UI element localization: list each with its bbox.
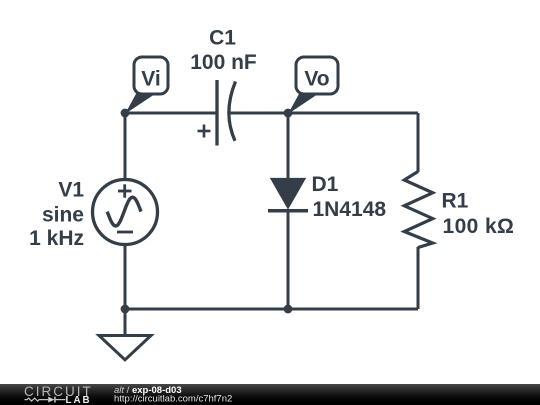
node dot Vi — [121, 109, 130, 118]
wire left lower (V1 bottom to ground node) — [124, 244, 127, 309]
svg-text:C1: C1 — [209, 27, 236, 50]
svg-text:R1: R1 — [442, 190, 469, 213]
svg-text:Vo: Vo — [304, 68, 329, 91]
label R1 value — [442, 190, 515, 239]
capacitor C1 — [198, 80, 236, 146]
node dot bottom-middle junction — [284, 305, 293, 314]
label V1 value — [29, 178, 84, 250]
svg-text:100 nF: 100 nF — [190, 51, 257, 74]
wire right lower (R1 to bottom net) — [417, 247, 420, 309]
wire middle lower (D1 cathode to bottom net) — [287, 211, 290, 309]
svg-text:V1: V1 — [58, 178, 84, 201]
label C1 value — [190, 27, 257, 75]
svg-text:http://circuitlab.com/c7hf7n2: http://circuitlab.com/c7hf7n2 — [114, 393, 232, 404]
diode D1 — [268, 178, 308, 211]
footer bar — [0, 384, 540, 405]
node tag Vi — [125, 57, 168, 114]
voltage source V1 — [93, 180, 158, 245]
node dot bottom-left junction — [121, 305, 130, 314]
resistor R1 — [404, 172, 432, 248]
svg-text:D1: D1 — [312, 173, 339, 196]
label D1 value — [312, 173, 387, 221]
footer logo mark (resistor + diode) — [25, 397, 66, 403]
svg-text:1N4148: 1N4148 — [313, 198, 387, 221]
wire top-left (node Vi to C1) — [125, 112, 217, 115]
ground — [99, 336, 151, 360]
svg-text:LAB: LAB — [66, 395, 92, 405]
svg-text:Vi: Vi — [141, 68, 160, 91]
wire right upper (top net to R1) — [417, 113, 420, 172]
svg-text:sine: sine — [42, 204, 84, 227]
svg-text:100 kΩ: 100 kΩ — [443, 215, 515, 238]
wire bottom net — [125, 308, 418, 311]
wire middle upper (Vo node to D1 anode) — [287, 113, 290, 179]
wire ground stub — [124, 309, 127, 334]
wire left upper (Vi node to V1 top) — [124, 113, 127, 180]
node dot Vo — [284, 109, 293, 118]
svg-text:1 kHz: 1 kHz — [29, 227, 84, 250]
wire top-right (C1 to R1 top) — [229, 112, 418, 115]
node tag Vo — [288, 57, 338, 114]
